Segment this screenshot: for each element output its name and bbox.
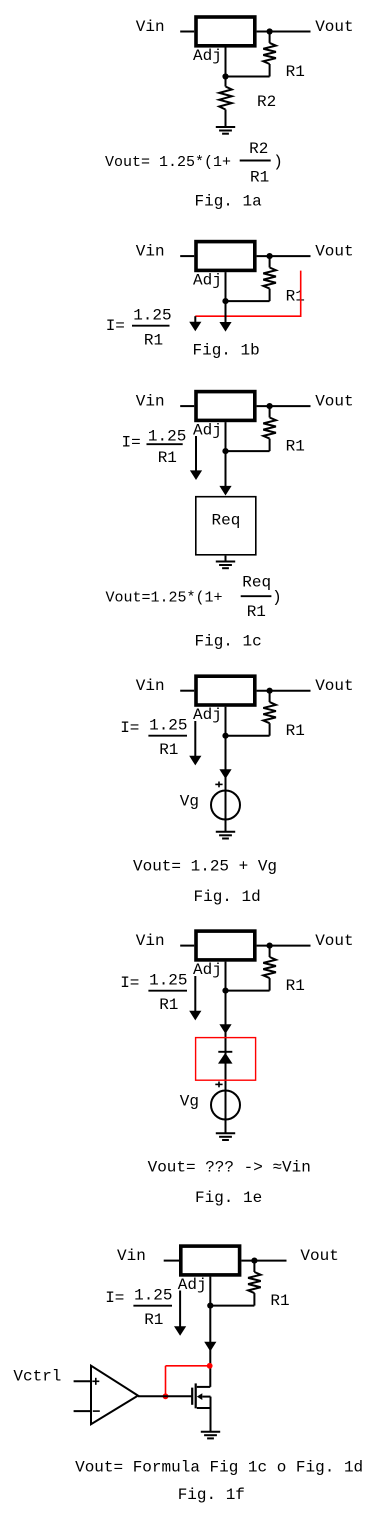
svg-text:R1: R1 — [247, 603, 266, 621]
svg-text:R1: R1 — [144, 1311, 163, 1329]
svg-text:Adj: Adj — [193, 706, 222, 724]
svg-text:Vout= 1.25*(1+: Vout= 1.25*(1+ — [105, 154, 231, 171]
svg-text:R1: R1 — [286, 438, 305, 456]
svg-text:Req: Req — [212, 512, 241, 530]
svg-text:Adj: Adj — [193, 47, 222, 65]
svg-text:Vout= 1.25 + Vg: Vout= 1.25 + Vg — [133, 858, 277, 876]
svg-text:Fig. 1d: Fig. 1d — [194, 888, 261, 906]
svg-text:Vctrl: Vctrl — [13, 1368, 61, 1386]
svg-text:I=: I= — [120, 974, 139, 992]
svg-text:R2: R2 — [257, 93, 276, 111]
svg-text:Vout= ??? -> ≈Vin: Vout= ??? -> ≈Vin — [148, 1159, 311, 1177]
svg-text:Vin: Vin — [136, 677, 165, 695]
svg-text:R1: R1 — [159, 741, 178, 759]
svg-text:R1: R1 — [286, 977, 305, 995]
svg-text:I=: I= — [122, 434, 141, 452]
svg-text:Fig. 1a: Fig. 1a — [195, 193, 263, 211]
svg-text:Vout: Vout — [315, 932, 353, 950]
svg-text:Fig. 1f: Fig. 1f — [178, 1486, 245, 1504]
svg-text:Adj: Adj — [193, 272, 222, 290]
svg-text:Vg: Vg — [180, 793, 199, 811]
svg-text:Adj: Adj — [193, 961, 222, 979]
svg-text:Vin: Vin — [136, 392, 165, 410]
svg-text:Vout: Vout — [315, 392, 353, 410]
svg-text:Adj: Adj — [178, 1276, 207, 1294]
svg-text:Fig. 1b: Fig. 1b — [193, 342, 260, 360]
svg-text:I=: I= — [106, 317, 125, 335]
svg-text:1.25: 1.25 — [134, 1286, 172, 1304]
svg-text:R1: R1 — [270, 1292, 289, 1310]
svg-text:Fig. 1c: Fig. 1c — [195, 633, 262, 651]
svg-text:Fig. 1e: Fig. 1e — [195, 1189, 262, 1207]
svg-text:Vout=1.25*(1+: Vout=1.25*(1+ — [106, 590, 223, 607]
svg-text:R2: R2 — [249, 140, 268, 158]
svg-text:1.25: 1.25 — [149, 971, 187, 989]
svg-text:1.25: 1.25 — [133, 306, 171, 324]
svg-text:Vg: Vg — [180, 1093, 199, 1111]
svg-text:R1: R1 — [286, 63, 305, 81]
svg-text:Vin: Vin — [136, 18, 165, 36]
svg-text:Vout: Vout — [300, 1247, 338, 1265]
svg-text:): ) — [273, 153, 283, 171]
svg-text:Vout: Vout — [315, 677, 353, 695]
svg-text:Vin: Vin — [117, 1247, 146, 1265]
svg-text:Vin: Vin — [136, 242, 165, 260]
svg-text:1.25: 1.25 — [149, 716, 187, 734]
svg-text:Vout: Vout — [315, 18, 353, 36]
svg-text:Vout: Vout — [315, 242, 353, 260]
svg-text:Adj: Adj — [193, 422, 222, 440]
svg-text:Vout= Formula Fig 1c o Fig. 1d: Vout= Formula Fig 1c o Fig. 1d — [75, 1459, 363, 1477]
svg-text:I=: I= — [105, 1289, 124, 1307]
svg-text:R1: R1 — [250, 169, 269, 187]
svg-text:R1: R1 — [144, 331, 163, 349]
svg-text:): ) — [272, 589, 282, 607]
svg-text:R1: R1 — [158, 449, 177, 467]
svg-text:R1: R1 — [286, 288, 305, 306]
svg-text:R1: R1 — [159, 996, 178, 1014]
svg-text:I=: I= — [120, 719, 139, 737]
svg-text:R1: R1 — [286, 722, 305, 740]
svg-text:Req: Req — [242, 574, 271, 592]
svg-text:Vin: Vin — [136, 932, 165, 950]
svg-text:1.25: 1.25 — [148, 428, 186, 446]
